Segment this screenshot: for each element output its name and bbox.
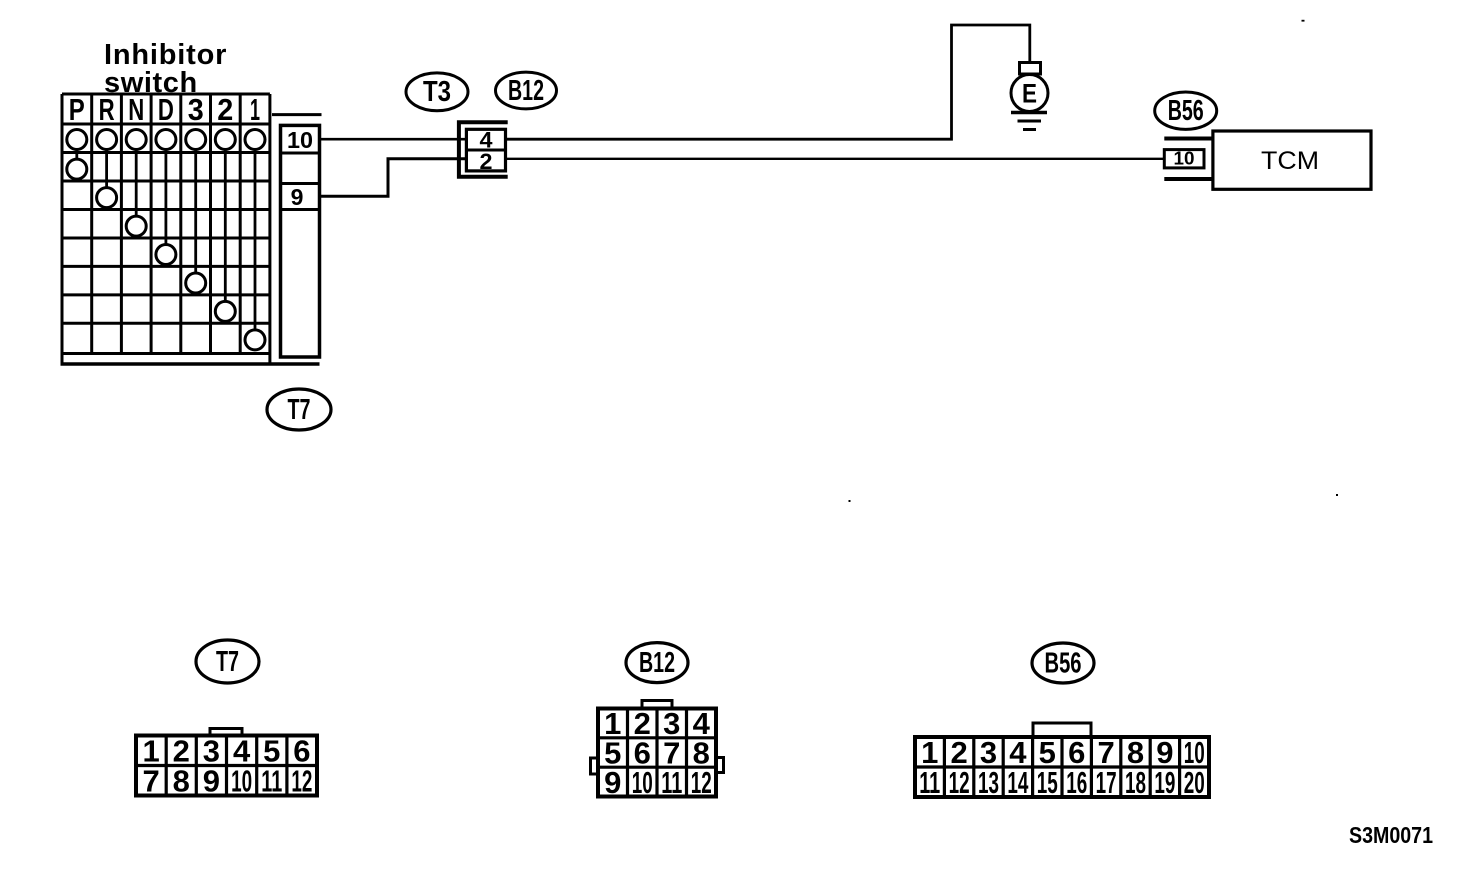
svg-text:3: 3: [188, 92, 204, 127]
svg-text:9: 9: [203, 764, 220, 799]
TCM block: [1213, 131, 1371, 189]
connector B56 bracket at TCM: [1164, 139, 1213, 180]
connector T7 pin numbers: [142, 734, 312, 799]
svg-text:13: 13: [978, 765, 999, 800]
svg-text:17: 17: [1096, 765, 1117, 800]
svg-text:20: 20: [1184, 765, 1205, 800]
svg-text:B56: B56: [1168, 95, 1204, 127]
inhibitor switch position letters P R N D 3 2 1: [69, 92, 260, 127]
svg-text:10: 10: [287, 127, 313, 153]
connector B56 pinout housing: [915, 723, 1209, 797]
contact column R: common circle, contact line, position circle: [97, 130, 117, 208]
svg-text:16: 16: [1066, 765, 1087, 800]
svg-text:12: 12: [949, 765, 970, 800]
svg-text:11: 11: [919, 765, 940, 800]
svg-text:9: 9: [604, 765, 621, 800]
connector B12 pinout housing: [591, 701, 724, 797]
svg-text:12: 12: [691, 765, 712, 800]
svg-text:TCM: TCM: [1261, 147, 1319, 175]
svg-text:11: 11: [661, 765, 682, 800]
inhibitor switch label: [104, 39, 227, 99]
connector B56 pin numbers: [919, 735, 1205, 800]
contact column N: common circle, contact line, position circle: [126, 130, 146, 237]
contact column P: common circle, contact line, position circle: [67, 130, 87, 180]
svg-text:15: 15: [1037, 765, 1058, 800]
svg-text:D: D: [158, 92, 174, 127]
connector T7 terminal strip (pins 10 and 9): [272, 115, 322, 357]
connector B56 pin 10 box: [1164, 149, 1204, 169]
svg-text:R: R: [99, 92, 115, 127]
svg-text:E: E: [1022, 79, 1037, 109]
wire: B12 pin 4 to ground E: [506, 25, 1030, 139]
svg-text:S3M0071: S3M0071: [1349, 822, 1433, 848]
svg-text:1: 1: [250, 92, 260, 127]
label T3 oval: [406, 73, 468, 111]
svg-text:14: 14: [1007, 765, 1028, 800]
svg-text:B12: B12: [508, 75, 544, 107]
svg-text:T7: T7: [216, 646, 239, 678]
svg-text:10: 10: [231, 764, 252, 799]
svg-text:T7: T7: [288, 394, 311, 426]
label B56 oval (pinout): [1032, 643, 1094, 683]
svg-text:7: 7: [142, 764, 159, 799]
wire: B12 pin 2 to TCM B56 pin 10: [506, 158, 1165, 160]
label B12 oval (pinout): [626, 643, 688, 683]
connector T7 pinout housing: [136, 729, 317, 796]
ground symbol bars: [1011, 113, 1047, 130]
svg-text:N: N: [128, 92, 144, 127]
svg-text:11: 11: [261, 764, 282, 799]
contact column 3: common circle, contact line, position circle: [186, 130, 206, 294]
svg-text:P: P: [69, 92, 85, 127]
svg-text:12: 12: [291, 764, 312, 799]
svg-text:10: 10: [632, 765, 653, 800]
svg-text:2: 2: [217, 92, 233, 127]
svg-text:8: 8: [173, 764, 190, 799]
contact column D: common circle, contact line, position circle: [156, 130, 176, 265]
inhibitor switch body grid: [62, 94, 270, 354]
scan speck: [1302, 20, 1305, 22]
label B12 oval: [496, 72, 557, 109]
wire: T7 pin 10 to connector T3/B12 pin 4: [320, 138, 466, 141]
svg-text:B56: B56: [1045, 648, 1082, 680]
scan speck: [849, 500, 851, 502]
label T7 oval: [267, 389, 331, 430]
svg-text:T3: T3: [423, 76, 451, 108]
connector T3/B12 pin box (pins 4 / 2): [466, 129, 505, 171]
svg-text:B12: B12: [639, 647, 675, 679]
wire: T7 pin 9 to connector T3/B12 pin 2: [320, 159, 466, 197]
connector T3/B12 bracket: [459, 122, 508, 177]
svg-text:2: 2: [480, 149, 493, 174]
contact column 1: common circle, contact line, position circle: [245, 130, 265, 350]
inhibitor switch footer bar: [61, 354, 320, 365]
ground terminal rectangle: [1020, 63, 1041, 75]
connector B12 pin numbers: [604, 706, 712, 800]
svg-text:18: 18: [1125, 765, 1146, 800]
svg-text:9: 9: [291, 184, 304, 210]
svg-text:19: 19: [1154, 765, 1175, 800]
label B56 oval: [1155, 92, 1217, 129]
svg-text:10: 10: [1174, 149, 1195, 169]
scan speck: [1336, 494, 1338, 496]
ground E circle: [1011, 75, 1048, 112]
contact column 2: common circle, contact line, position circle: [215, 130, 235, 322]
label T7 oval (pinout): [196, 640, 259, 683]
